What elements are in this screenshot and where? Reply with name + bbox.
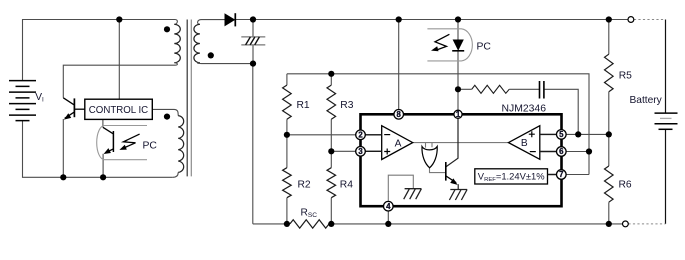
svg-text:R3: R3 <box>340 100 353 111</box>
svg-text:R2: R2 <box>298 180 311 191</box>
svg-text:Battery: Battery <box>630 95 663 106</box>
svg-text:2: 2 <box>358 130 363 139</box>
svg-text:PC: PC <box>477 41 492 52</box>
svg-text:R5: R5 <box>619 70 632 81</box>
svg-text:PC: PC <box>143 140 158 151</box>
svg-text:A: A <box>395 138 402 149</box>
svg-text:R1: R1 <box>297 100 310 111</box>
svg-text:5: 5 <box>559 130 564 139</box>
svg-text:1: 1 <box>456 110 461 119</box>
svg-text:3: 3 <box>358 147 363 156</box>
svg-text:8: 8 <box>397 110 402 119</box>
svg-text:B: B <box>521 138 528 149</box>
svg-text:NJM2346: NJM2346 <box>502 103 547 114</box>
svg-text:7: 7 <box>559 170 563 179</box>
svg-text:R6: R6 <box>619 180 632 191</box>
svg-text:R4: R4 <box>340 180 353 191</box>
svg-text:CONTROL IC: CONTROL IC <box>89 105 148 116</box>
svg-text:6: 6 <box>559 147 564 156</box>
svg-text:4: 4 <box>386 202 391 211</box>
